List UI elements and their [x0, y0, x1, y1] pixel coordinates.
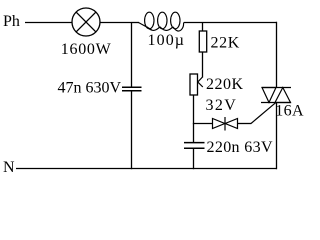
- wire right vertical lower: [276, 103, 278, 170]
- svg-text:47n 630V: 47n 630V: [58, 80, 122, 97]
- wire right vertical upper: [276, 22, 278, 88]
- wire capacitor 220n to bottom wire: [193, 148, 195, 169]
- triac 16A: [261, 88, 291, 103]
- wire lamp to node A: [100, 22, 131, 24]
- wire bottom: [16, 168, 277, 170]
- svg-text:100µ: 100µ: [148, 32, 186, 49]
- svg-text:1600W: 1600W: [61, 41, 112, 58]
- wire node A to capacitor 47n: [131, 22, 133, 87]
- inductor L1 100u: [139, 12, 184, 31]
- wire diac right: [238, 123, 252, 125]
- svg-text:Ph: Ph: [3, 13, 20, 30]
- wire 22K to potentiometer arrow: [202, 52, 204, 78]
- wire gate diagonal: [251, 103, 276, 124]
- wire potentiometer to node C: [193, 95, 195, 125]
- wire coil to node B: [184, 22, 203, 24]
- svg-text:220n 63V: 220n 63V: [207, 139, 273, 156]
- svg-text:220K: 220K: [206, 76, 244, 93]
- wire diac left: [193, 123, 213, 125]
- node B (junction to 22K chain) / wire to top right corner: [203, 22, 277, 24]
- capacitor 47n plates: [122, 87, 142, 91]
- capacitor 220n plates: [184, 143, 205, 149]
- resistor 22K body: [199, 31, 206, 52]
- wire node B to 22K: [202, 22, 204, 32]
- potentiometer 220K body: [190, 74, 198, 95]
- wire capacitor 47n to bottom wire: [131, 91, 133, 169]
- node A (junction to 47n branch): [131, 22, 139, 24]
- wire Ph to lamp: [25, 22, 72, 24]
- svg-text:22K: 22K: [211, 35, 240, 52]
- svg-text:32V: 32V: [206, 97, 238, 114]
- potentiometer wiper arrow: [198, 77, 203, 87]
- svg-text:16A: 16A: [275, 103, 304, 120]
- lamp 1600W: [72, 8, 100, 36]
- svg-text:N: N: [3, 159, 15, 176]
- diac 32V: [213, 117, 238, 131]
- wire node C to capacitor 220n: [193, 124, 195, 144]
